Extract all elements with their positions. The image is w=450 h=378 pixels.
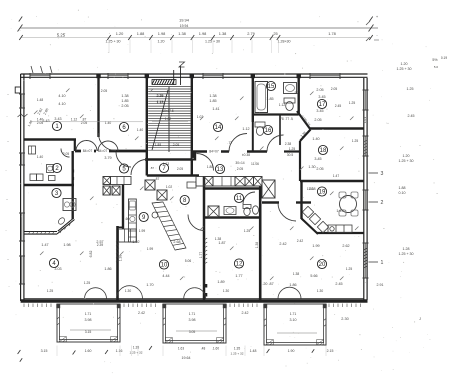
room 11 label xyxy=(234,193,243,202)
wall below room 7 xyxy=(147,174,199,177)
room 16 right wall xyxy=(279,115,281,145)
diagonal hatched strip (cellar stair) xyxy=(152,202,186,250)
room 18 label xyxy=(318,145,327,154)
svg-text:1.85: 1.85 xyxy=(121,99,128,103)
svg-text:2.15: 2.15 xyxy=(327,349,334,353)
svg-text:2.35: 2.35 xyxy=(157,94,164,98)
svg-text:1.60: 1.60 xyxy=(213,347,219,351)
svg-text:1.25 + 32: 1.25 + 32 xyxy=(231,352,244,356)
bath 11 top wall xyxy=(204,187,260,189)
bottom witness lines xyxy=(56,346,58,357)
svg-text:3.43: 3.43 xyxy=(54,117,61,121)
svg-text:1.86: 1.86 xyxy=(289,283,296,287)
room 6 door arc xyxy=(98,133,116,151)
room 16 wc xyxy=(255,122,265,135)
svg-text:1.99: 1.99 xyxy=(147,247,154,251)
windows: left wall xyxy=(19,94,25,108)
svg-text:1.20: 1.20 xyxy=(401,62,408,66)
svg-text:1.71: 1.71 xyxy=(290,312,297,316)
svg-text:2.05: 2.05 xyxy=(316,88,323,92)
exterior bottom wall xyxy=(21,299,368,302)
svg-text:1.25 + 30: 1.25 + 30 xyxy=(105,40,120,44)
svg-text:2.05: 2.05 xyxy=(37,121,44,125)
svg-text:1.38: 1.38 xyxy=(178,31,186,36)
windows: top wall xyxy=(30,73,50,79)
svg-text:2.05: 2.05 xyxy=(81,121,88,125)
washing machine room 9 xyxy=(152,212,158,218)
svg-text:1.88: 1.88 xyxy=(155,143,162,147)
svg-text:12: 12 xyxy=(236,262,243,268)
threshold labels on corridor wall xyxy=(81,148,109,154)
room 19 label xyxy=(317,187,326,196)
svg-text:1.25: 1.25 xyxy=(244,229,251,233)
svg-text:1.98: 1.98 xyxy=(63,243,70,247)
room 3 bottom wall xyxy=(24,232,57,235)
svg-text:1.12: 1.12 xyxy=(279,103,286,107)
room 16 label xyxy=(263,125,272,134)
svg-text:1.02: 1.02 xyxy=(197,115,204,119)
svg-text:1.78: 1.78 xyxy=(328,31,336,36)
exterior left wall xyxy=(21,74,24,301)
svg-text:1.02: 1.02 xyxy=(132,240,139,244)
partition window hatch room10/12 wall xyxy=(204,238,207,240)
svg-text:1.88: 1.88 xyxy=(399,186,406,190)
svg-text:3.79: 3.79 xyxy=(104,156,111,160)
svg-text:1.38: 1.38 xyxy=(219,31,227,36)
bath 15 left wall xyxy=(252,78,254,122)
right wall window hatch room 18 xyxy=(364,140,368,142)
svg-text:.97: .97 xyxy=(294,91,299,95)
svg-text:2: 2 xyxy=(381,200,384,206)
svg-text:3.98: 3.98 xyxy=(85,318,92,322)
svg-text:1.40: 1.40 xyxy=(137,128,144,132)
svg-text:J: J xyxy=(419,317,421,321)
exterior top wall xyxy=(21,74,368,77)
svg-text:1.38: 1.38 xyxy=(209,94,216,98)
svg-text:1.98: 1.98 xyxy=(199,31,207,36)
svg-text:2.91: 2.91 xyxy=(377,283,384,287)
svg-text:84=07: 84=07 xyxy=(98,149,108,153)
svg-text:.25: .25 xyxy=(272,31,277,36)
witness lines xyxy=(108,40,110,54)
svg-text:3.05: 3.05 xyxy=(189,330,196,334)
svg-text:2.05: 2.05 xyxy=(331,87,338,91)
svg-text:3.45: 3.45 xyxy=(316,109,323,113)
room 16 wall right part xyxy=(284,150,300,152)
room 8 label xyxy=(180,195,189,204)
svg-text:1.02: 1.02 xyxy=(165,117,172,121)
svg-text:10: 10 xyxy=(161,263,168,269)
room 7 door arc xyxy=(131,160,147,176)
small angle marks scattered xyxy=(66,89,70,93)
svg-text:1.88: 1.88 xyxy=(207,165,214,169)
svg-text:1.47: 1.47 xyxy=(41,243,48,247)
svg-text:5%: 5% xyxy=(432,58,438,62)
svg-text:2.42: 2.42 xyxy=(242,311,249,315)
svg-text:1.38: 1.38 xyxy=(255,242,259,249)
angled wall near room 16/18 xyxy=(297,111,311,141)
svg-text:2.39: 2.39 xyxy=(97,243,104,247)
bath 15 tub xyxy=(255,82,268,113)
wall below staircase xyxy=(145,158,193,161)
wall between room 4 and room 10 xyxy=(116,226,119,301)
svg-text:1.38: 1.38 xyxy=(121,94,128,98)
entrance door leaf lines xyxy=(173,70,175,85)
svg-text:1.28+30: 1.28+30 xyxy=(277,40,290,44)
wall below room 1 xyxy=(24,138,76,141)
svg-text:.60: .60 xyxy=(125,217,130,221)
svg-text:1.02: 1.02 xyxy=(166,185,173,189)
svg-text:2.05: 2.05 xyxy=(121,104,128,108)
svg-text:1.12: 1.12 xyxy=(242,127,249,131)
svg-text:3: 3 xyxy=(381,171,384,177)
svg-text:1.20: 1.20 xyxy=(403,154,410,158)
svg-text:19: 19 xyxy=(319,190,326,196)
room 6 label xyxy=(119,122,128,131)
svg-text:1.86: 1.86 xyxy=(104,267,111,271)
svg-text:1.71: 1.71 xyxy=(85,312,92,316)
svg-text:14: 14 xyxy=(215,125,222,131)
staircase right wall xyxy=(191,78,193,176)
wall between room 2 and room 3 xyxy=(24,184,74,186)
svg-text:1.77: 1.77 xyxy=(235,274,242,278)
entrance threshold hatch xyxy=(152,80,176,85)
wall between room 18 and kitchen 19 xyxy=(300,180,364,182)
room 10 label xyxy=(159,260,168,269)
duct boxes left of wall xyxy=(145,180,155,190)
svg-text:0.19: 0.19 xyxy=(441,56,447,60)
kitchen 9 left wall xyxy=(122,184,124,229)
door arc corridor right xyxy=(98,141,118,151)
svg-text:1.25: 1.25 xyxy=(346,267,353,271)
svg-text:1.35: 1.35 xyxy=(133,346,140,350)
svg-text:4.10: 4.10 xyxy=(58,94,65,98)
kitchen 9 counter bottom cells xyxy=(119,229,137,242)
svg-text:2.79: 2.79 xyxy=(247,31,255,36)
wall between room 1 and room 6 xyxy=(97,78,99,137)
svg-text:3.45: 3.45 xyxy=(314,157,321,161)
svg-text:2.05: 2.05 xyxy=(316,167,323,171)
left wall pilaster xyxy=(15,87,20,93)
balcony right xyxy=(264,304,327,345)
french doors bottom wall xyxy=(85,288,96,299)
svg-text:1.16: 1.16 xyxy=(116,349,123,353)
svg-text:2.45: 2.45 xyxy=(335,282,342,286)
svg-text:2.38: 2.38 xyxy=(285,142,292,146)
svg-text:19.94: 19.94 xyxy=(180,24,189,28)
room 3 wc fixture xyxy=(57,217,66,226)
svg-text:1.40: 1.40 xyxy=(312,137,319,141)
staircase direction arrow xyxy=(152,90,168,150)
svg-text:11: 11 xyxy=(236,196,243,202)
svg-text:1.25 + 30: 1.25 + 30 xyxy=(398,159,413,163)
room 2 washer boxes xyxy=(30,174,37,181)
svg-text:1.48: 1.48 xyxy=(250,349,257,353)
left wall break symbol xyxy=(18,114,28,117)
top overall dimension line 19.94 xyxy=(20,27,378,29)
svg-text:.87: .87 xyxy=(155,177,160,181)
svg-text:30=14: 30=14 xyxy=(235,161,244,165)
svg-text:1.99: 1.99 xyxy=(139,229,146,233)
room 12 label xyxy=(234,259,243,268)
entrance symbol Z xyxy=(179,62,185,67)
bath 15 wc xyxy=(284,98,295,111)
bath 15 bottom wall xyxy=(253,113,299,115)
svg-text:1.98: 1.98 xyxy=(158,31,166,36)
door arc room 10 xyxy=(188,215,204,231)
svg-text:6.82: 6.82 xyxy=(89,251,93,258)
room 14/16 wall xyxy=(247,150,267,152)
svg-text:1.38: 1.38 xyxy=(119,255,123,262)
svg-text:1.25 + 30: 1.25 + 30 xyxy=(398,252,413,256)
room 14 bottom wall left part xyxy=(193,150,229,152)
svg-text:5.06: 5.06 xyxy=(185,259,192,263)
kitchen 19 table xyxy=(339,192,358,216)
svg-text:2.45: 2.45 xyxy=(408,114,415,118)
bath 11 bottom wall xyxy=(204,216,260,218)
svg-text:1.25: 1.25 xyxy=(84,281,91,285)
svg-text:.77: .77 xyxy=(227,141,232,145)
svg-text:1.25: 1.25 xyxy=(47,289,54,293)
svg-text:1.77: 1.77 xyxy=(199,252,203,259)
staircase center rail xyxy=(168,87,170,153)
room 5 label xyxy=(119,164,128,173)
bath 15 right wall xyxy=(298,78,300,115)
partition window hatch room4/10 wall xyxy=(116,240,119,242)
svg-text:1.13: 1.13 xyxy=(163,162,169,166)
room 3 sink unit xyxy=(63,199,76,211)
room 1 label xyxy=(52,121,61,130)
svg-text:1.63: 1.63 xyxy=(178,347,184,351)
svg-text:30.5: 30.5 xyxy=(287,153,294,157)
svg-text:1.38: 1.38 xyxy=(215,237,222,241)
room 9 label xyxy=(139,212,148,221)
kitchen 19 counter along diagonal xyxy=(302,206,352,232)
svg-text:1.88: 1.88 xyxy=(137,31,145,36)
closet row below room 13 xyxy=(196,177,262,187)
svg-text:3.98: 3.98 xyxy=(189,318,196,322)
svg-text:1.40: 1.40 xyxy=(105,121,112,125)
svg-text:1.28: 1.28 xyxy=(403,247,410,251)
svg-text:1.25: 1.25 xyxy=(349,101,356,105)
bath 11 shower xyxy=(208,206,219,217)
kitchen 9 corner jog xyxy=(118,226,125,228)
svg-text:16: 16 xyxy=(265,128,272,134)
room 13 label xyxy=(215,164,224,173)
balcony left xyxy=(57,304,121,342)
window marks top wall xyxy=(31,66,33,73)
svg-text:1.47: 1.47 xyxy=(333,174,340,178)
room 20 top wall right part xyxy=(296,201,311,203)
room 15 label xyxy=(266,81,275,90)
room 2 door arc xyxy=(61,149,70,158)
interior dimension line y121 xyxy=(30,121,143,123)
svg-text:2.62: 2.62 xyxy=(342,244,349,248)
svg-text:1.85: 1.85 xyxy=(266,97,273,101)
room 4 label xyxy=(49,258,58,267)
svg-text:1.71: 1.71 xyxy=(189,312,196,316)
room 3 right wall xyxy=(71,185,73,219)
svg-text:20: 20 xyxy=(319,262,326,268)
svg-text:5.0: 5.0 xyxy=(434,65,439,69)
room 20 label xyxy=(317,259,326,268)
svg-text:2.05: 2.05 xyxy=(101,89,108,93)
svg-text:3.03: 3.03 xyxy=(54,267,61,271)
room 2 right wall xyxy=(71,151,73,185)
wall left of bath 11 / room 12 xyxy=(203,176,206,301)
right side section markers xyxy=(369,172,379,174)
svg-text:0.10: 0.10 xyxy=(399,191,406,195)
svg-text:1.48: 1.48 xyxy=(37,98,44,102)
svg-text:2.05: 2.05 xyxy=(177,167,183,171)
wall between rooms 17 and 18 xyxy=(309,127,364,129)
room 7 label xyxy=(159,163,168,172)
room 20 door arc xyxy=(278,203,296,221)
kitchen 9 counter strip xyxy=(129,199,137,242)
door arc corridor left xyxy=(76,141,97,152)
room 3 diagonal bay wall xyxy=(57,219,75,235)
svg-text:1.25 + 30: 1.25 + 30 xyxy=(396,67,411,71)
room 2 sink unit xyxy=(47,165,54,173)
svg-text:±0.38: ±0.38 xyxy=(242,153,250,157)
room 13 door arc xyxy=(197,154,214,171)
windows: right wall xyxy=(363,90,369,110)
svg-text:1.70: 1.70 xyxy=(146,283,153,287)
bath 15 sink xyxy=(284,83,297,94)
room 2 label xyxy=(52,163,61,172)
svg-text:18x17.5: 18x17.5 xyxy=(162,109,174,113)
svg-text:.20 .87: .20 .87 xyxy=(262,282,273,286)
kitchen 19 bottom wall xyxy=(317,232,364,234)
svg-text:3.15: 3.15 xyxy=(41,349,48,353)
balcony middle xyxy=(163,304,227,343)
svg-text:1.20: 1.20 xyxy=(116,31,124,36)
svg-text:1.35: 1.35 xyxy=(234,347,241,351)
svg-text:1.41: 1.41 xyxy=(212,107,219,111)
room 2 radiator xyxy=(29,146,36,154)
svg-text:2.05: 2.05 xyxy=(63,152,70,156)
staircase left wall xyxy=(146,78,148,176)
svg-text:3.45: 3.45 xyxy=(318,95,325,99)
svg-text:13: 13 xyxy=(217,167,224,173)
svg-text:1.60: 1.60 xyxy=(85,349,92,353)
room 3 label xyxy=(52,188,61,197)
room 5 door arc xyxy=(116,152,131,167)
room 20 top wall left part xyxy=(262,201,279,203)
kitchen 5 counter row xyxy=(103,177,131,185)
svg-text:1.85: 1.85 xyxy=(209,99,216,103)
svg-text:1.25: 1.25 xyxy=(407,87,414,91)
kitchen 19 diagonal wall xyxy=(302,219,319,235)
exterior right wall xyxy=(364,78,367,300)
room 14 door arc xyxy=(229,134,247,152)
svg-text:2.42: 2.42 xyxy=(279,242,286,246)
svg-text:1.90: 1.90 xyxy=(288,349,295,353)
svg-text:84=07: 84=07 xyxy=(209,150,219,154)
duct boxes center xyxy=(204,177,213,187)
svg-text:3.15: 3.15 xyxy=(85,330,92,334)
threshold label room 14 wall xyxy=(207,148,221,154)
svg-text:1.25: 1.25 xyxy=(289,147,296,151)
svg-text:1.99: 1.99 xyxy=(312,244,319,248)
foundation tick marks under bottom wall xyxy=(24,304,51,308)
bottom wall inner line xyxy=(24,298,364,300)
jog wall xyxy=(74,140,76,152)
svg-text:2.68: 2.68 xyxy=(173,240,180,244)
bath 11 sink xyxy=(224,207,236,215)
svg-text:1.13: 1.13 xyxy=(157,100,164,104)
room 3 bay window hatch on diagonal xyxy=(60,222,71,233)
svg-text:17: 17 xyxy=(319,102,326,108)
svg-text:3.10: 3.10 xyxy=(290,318,297,322)
svg-text:19.64: 19.64 xyxy=(182,356,191,360)
door jamb marks room 12 xyxy=(204,284,207,288)
svg-text:1.20: 1.20 xyxy=(158,40,165,44)
svg-text:2.42: 2.42 xyxy=(297,239,304,243)
svg-text:1.30: 1.30 xyxy=(308,165,315,169)
svg-text:1.30: 1.30 xyxy=(317,289,324,293)
svg-text:2.05: 2.05 xyxy=(314,118,321,122)
svg-text:1.30: 1.30 xyxy=(223,289,230,293)
room 16 left wall xyxy=(252,122,254,152)
right wall window hatch room 20 xyxy=(364,248,368,250)
svg-text:2.05: 2.05 xyxy=(237,167,244,171)
duct boxes kitchen 9 xyxy=(103,186,110,195)
svg-text:1.89: 1.89 xyxy=(217,280,224,284)
second dimension row xyxy=(21,37,371,39)
wall right of rooms 11-12 xyxy=(259,186,262,301)
svg-text:.48: .48 xyxy=(201,347,206,351)
svg-text:1.87: 1.87 xyxy=(218,241,225,245)
bath 11 door arc xyxy=(243,192,255,204)
svg-text:3.43: 3.43 xyxy=(42,119,49,123)
corridor wall left flat xyxy=(75,150,148,153)
room 14 label xyxy=(213,122,222,131)
svg-text:2.45: 2.45 xyxy=(335,104,342,108)
wall pillar at stair corner xyxy=(191,151,196,161)
wall junction nodes top wall xyxy=(96,74,100,78)
svg-text:2.42: 2.42 xyxy=(138,311,145,315)
svg-text:2.30: 2.30 xyxy=(341,317,348,321)
svg-text:4.44: 4.44 xyxy=(162,274,169,278)
svg-text:1.30: 1.30 xyxy=(125,289,132,293)
corridor wall right flat upper xyxy=(299,141,301,181)
svg-text:1.30: 1.30 xyxy=(307,187,314,191)
svg-text:1: 1 xyxy=(381,260,384,266)
svg-text:2.05: 2.05 xyxy=(173,143,180,147)
svg-text:1.25 + 30: 1.25 + 30 xyxy=(205,40,220,44)
svg-text:84=07: 84=07 xyxy=(83,149,93,153)
room 17 label xyxy=(317,99,326,108)
svg-text:11.06: 11.06 xyxy=(251,162,259,166)
bath 11 wc xyxy=(243,205,259,216)
staircase treads xyxy=(148,87,190,151)
svg-text:1.40: 1.40 xyxy=(37,155,44,159)
svg-text:.87: .87 xyxy=(150,166,155,170)
svg-text:5.66: 5.66 xyxy=(310,274,317,278)
room 2 door jamb marks xyxy=(72,170,75,173)
svg-text:1.12: 1.12 xyxy=(71,118,78,122)
svg-text:4.10: 4.10 xyxy=(58,102,65,106)
room 3 bottom wall window hatch xyxy=(28,231,55,235)
svg-text:15: 15 xyxy=(268,84,275,90)
svg-text:1.47: 1.47 xyxy=(336,209,343,213)
kitchen 19 left wall xyxy=(300,181,302,219)
svg-text:1.01: 1.01 xyxy=(363,117,367,123)
svg-text:.78 .77 .5: .78 .77 .5 xyxy=(279,117,293,121)
svg-text:1.38: 1.38 xyxy=(293,272,300,276)
svg-text:19.94: 19.94 xyxy=(179,18,190,23)
